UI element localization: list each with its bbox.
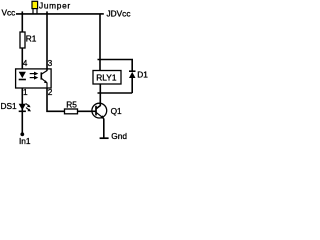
svg-text:R5: R5 <box>66 100 77 110</box>
svg-text:DS1: DS1 <box>1 101 18 111</box>
svg-text:3: 3 <box>48 58 53 68</box>
svg-text:Q1: Q1 <box>111 106 122 116</box>
svg-text:4: 4 <box>23 58 28 68</box>
svg-text:Gnd: Gnd <box>111 131 127 141</box>
svg-text:JDVcc: JDVcc <box>107 9 131 19</box>
svg-text:Jumper: Jumper <box>39 1 71 11</box>
svg-text:D1: D1 <box>137 70 148 80</box>
svg-text:2: 2 <box>48 87 53 97</box>
svg-text:R1: R1 <box>26 33 37 43</box>
svg-text:In1: In1 <box>19 136 31 146</box>
svg-text:Vcc: Vcc <box>2 7 16 17</box>
svg-text:1: 1 <box>23 87 28 97</box>
svg-text:RLY1: RLY1 <box>96 72 117 82</box>
